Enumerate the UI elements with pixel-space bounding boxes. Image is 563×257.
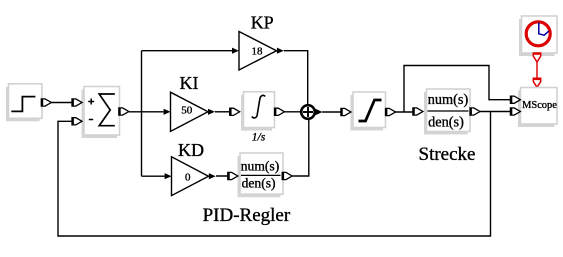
wire: saturation tap over Strecke block to scope input 1	[404, 66, 511, 113]
arrowhead into KI	[164, 109, 171, 115]
port: Strecke input	[413, 108, 423, 115]
svg-text:MScope: MScope	[522, 100, 557, 111]
arrowhead KI output	[208, 109, 215, 115]
port: integrator output	[275, 108, 285, 115]
svg-text:num(s): num(s)	[241, 158, 280, 174]
port: KD transfer fn input	[228, 172, 238, 179]
wire: sum output to KI input	[128, 111, 163, 113]
arrowhead into scope top (red)	[533, 78, 540, 87]
svg-text:den(s): den(s)	[428, 115, 464, 131]
wire: clock to scope (red)	[536, 62, 538, 79]
port: sum input plus	[72, 99, 82, 106]
gain KD	[172, 157, 209, 196]
arrowhead into KP	[232, 48, 239, 54]
port: clock output (red)	[533, 53, 540, 62]
svg-text:PID-Regler: PID-Regler	[203, 205, 291, 226]
wire: integrator output to sum junction	[284, 111, 301, 113]
port: KD transfer fn output	[282, 172, 292, 179]
svg-text:KD: KD	[178, 140, 204, 160]
wire: branch to KP input	[142, 50, 233, 52]
svg-text:den(s): den(s)	[242, 175, 276, 191]
port: sum input minus	[72, 118, 82, 125]
svg-text:1/s: 1/s	[252, 131, 266, 143]
block Integrator	[241, 92, 275, 131]
wire: junction to saturation	[322, 111, 341, 113]
arrowhead KD output	[209, 173, 216, 179]
wire: saturation output to Strecke input	[395, 111, 413, 113]
gain KP	[239, 32, 277, 71]
wire: step to sum plus input	[51, 102, 72, 104]
svg-text:num(s): num(s)	[428, 92, 469, 108]
svg-text:18: 18	[252, 46, 264, 58]
wire: KD transfer fn output up to junction bottom	[293, 120, 309, 176]
port: scope input 1	[510, 96, 520, 103]
block Step	[6, 84, 42, 122]
port: scope input 2	[510, 108, 520, 115]
svg-text:0: 0	[185, 172, 191, 184]
port: saturation input	[341, 108, 351, 115]
wire: KI output to integrator	[215, 111, 230, 113]
wire: feedback loop to sum minus input	[58, 112, 491, 237]
port: integrator input	[230, 108, 240, 115]
wire: branch vertical for KP and KD	[141, 51, 143, 177]
block KD transfer fn	[238, 153, 284, 197]
wire: Strecke output to scope input 2	[480, 111, 511, 113]
block Strecke transfer fn	[424, 89, 470, 135]
arrowhead KP output	[277, 48, 284, 54]
arrowhead into KD	[165, 173, 172, 179]
svg-text:Strecke: Strecke	[419, 144, 476, 165]
block Saturation	[351, 92, 386, 131]
svg-text:50: 50	[181, 104, 193, 116]
port: sum output	[119, 108, 129, 115]
arrowhead junction output	[316, 109, 323, 115]
sum junction circle	[301, 105, 315, 119]
block Clock	[519, 16, 557, 56]
port: Strecke output	[470, 108, 480, 115]
port: step output	[41, 99, 51, 106]
wire: KP output to junction top	[284, 51, 308, 104]
gain KI	[171, 92, 209, 131]
svg-text:KI: KI	[180, 73, 199, 93]
block MScope	[518, 88, 557, 128]
svg-text:KP: KP	[251, 13, 274, 33]
port: saturation output	[386, 108, 396, 115]
block Sum	[82, 87, 120, 139]
wire: branch to KD input	[142, 175, 229, 177]
